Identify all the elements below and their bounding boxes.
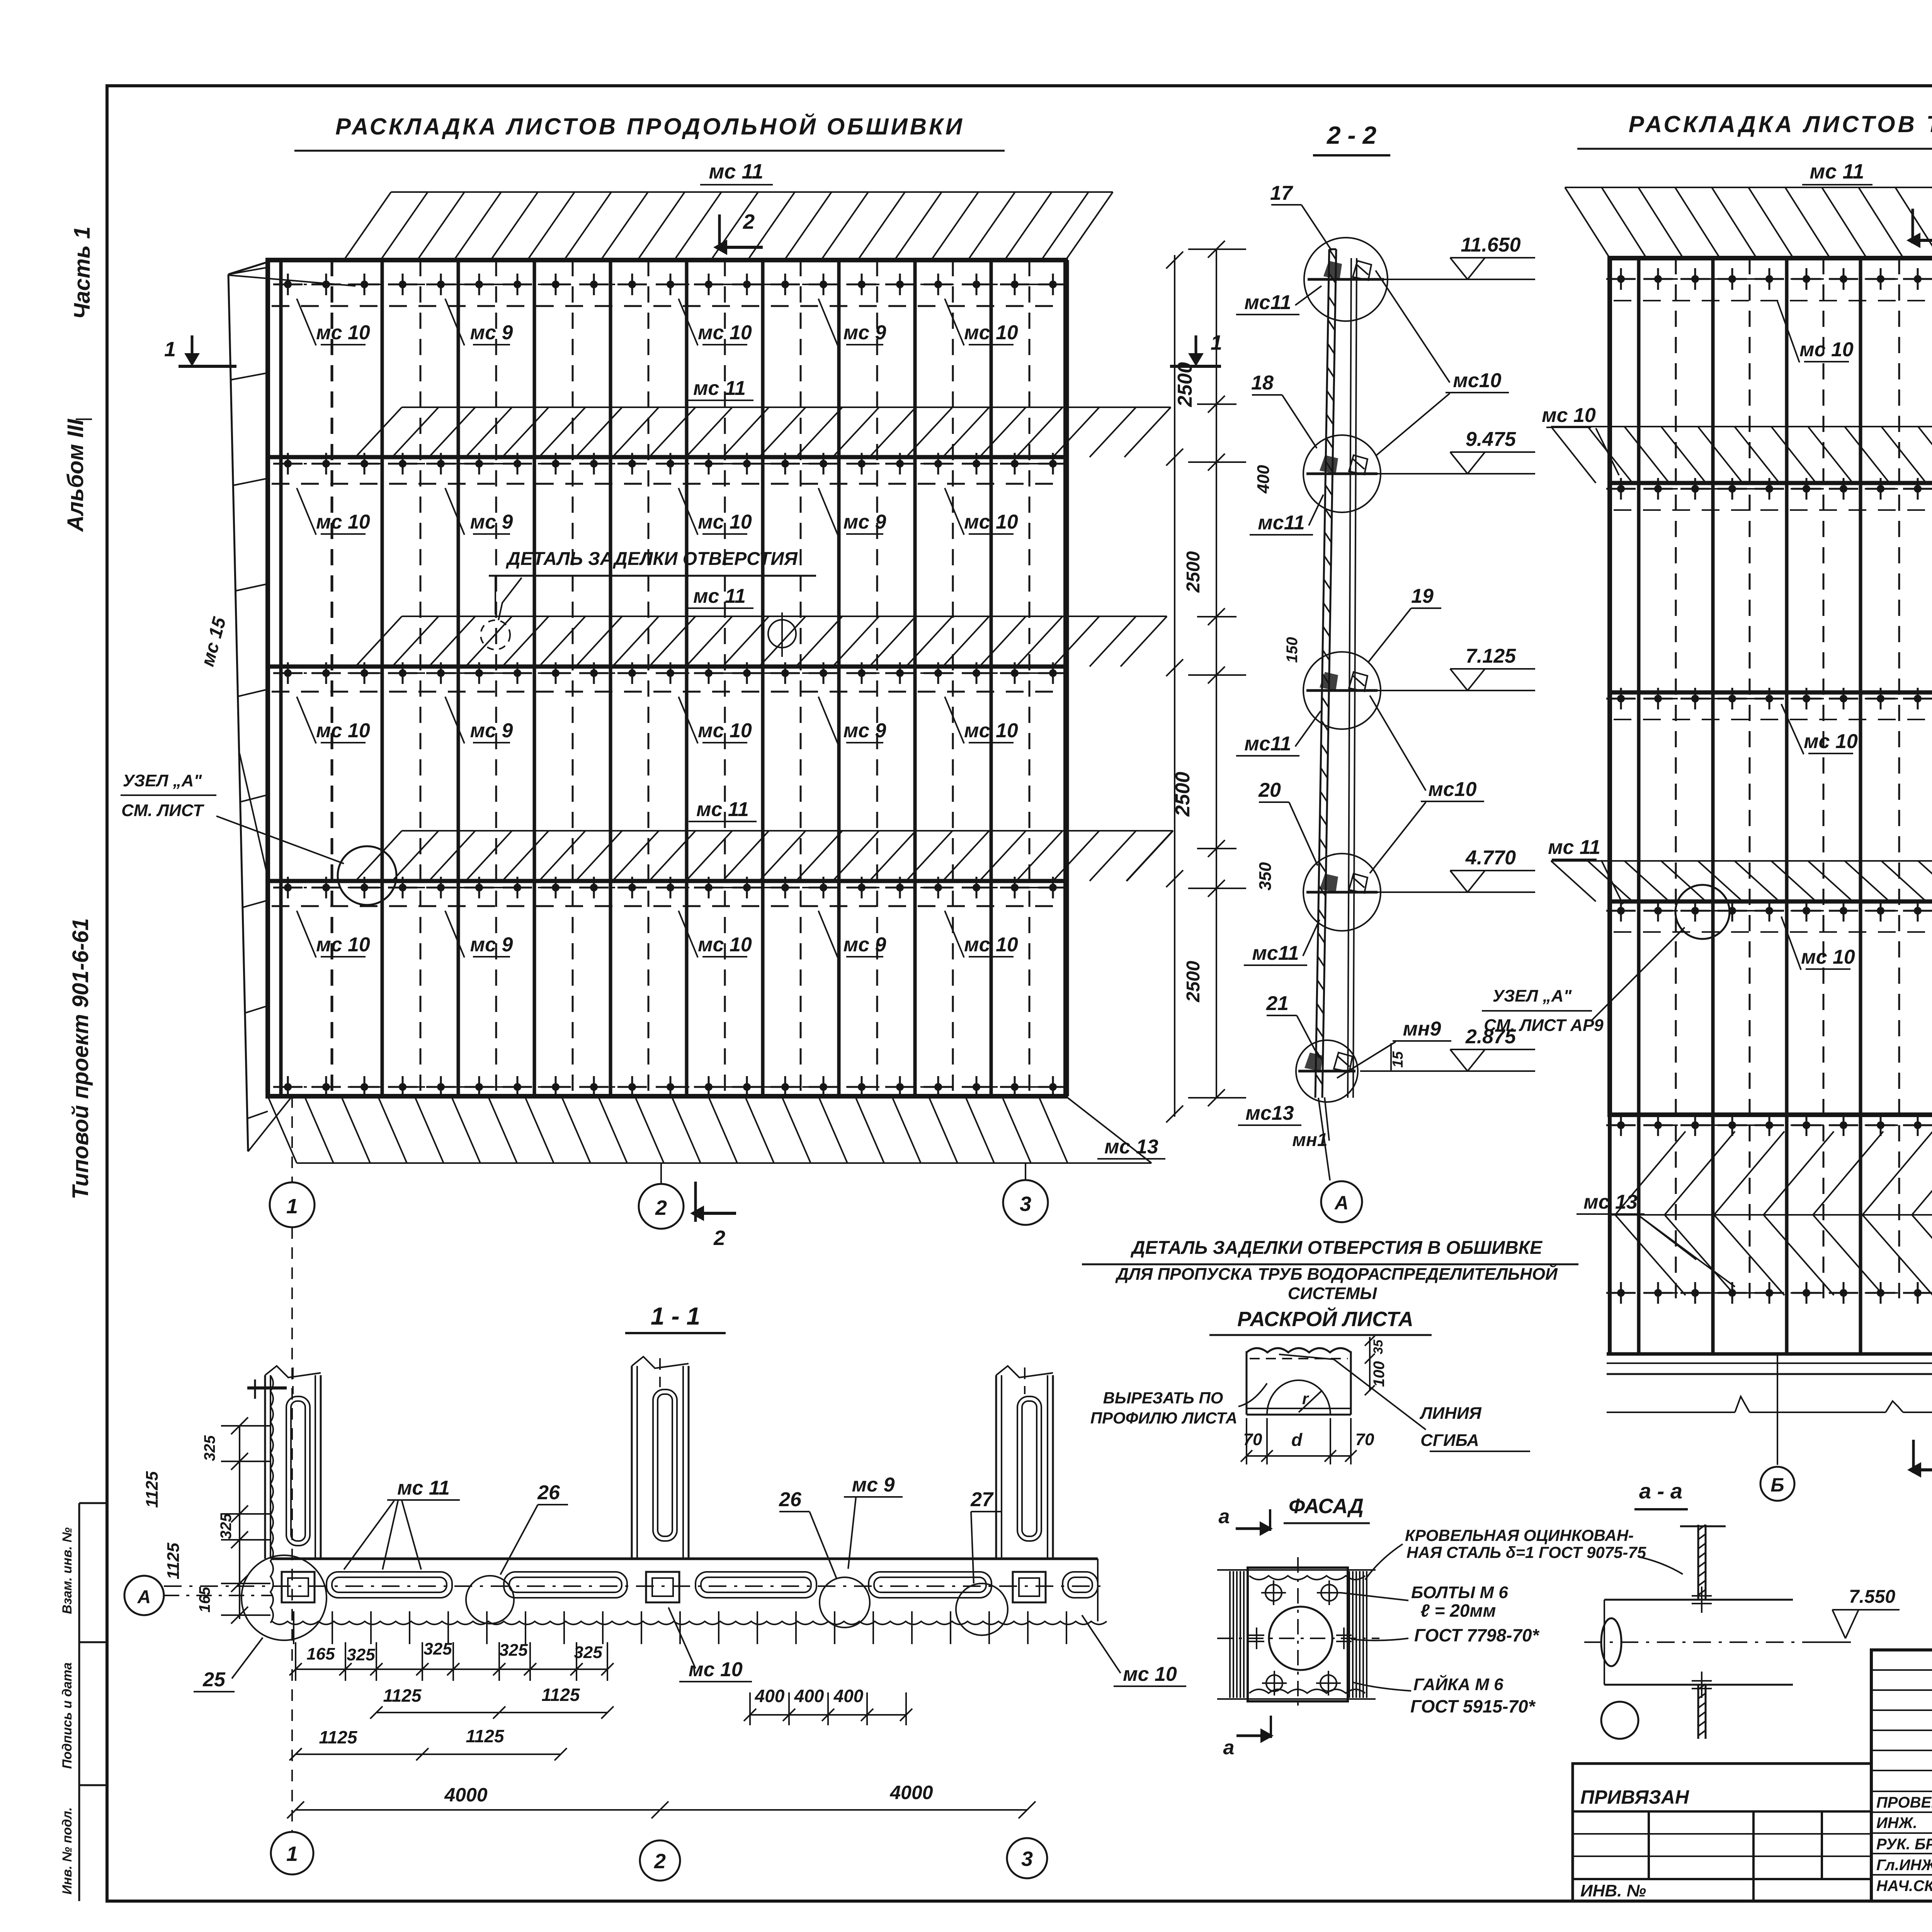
- section mark 1 (right) + dim 2500: [1195, 335, 1197, 361]
- svg-text:26: 26: [779, 1488, 802, 1511]
- left corrugated edge: [270, 1376, 273, 1623]
- section mark 3 bottom: [1912, 1440, 1915, 1473]
- left panel interior hatched band 3: [355, 831, 1173, 881]
- svg-text:ℓ = 20мм: ℓ = 20мм: [1420, 1600, 1496, 1621]
- left panel outline (продольная обшивка): [268, 260, 1066, 1096]
- 1-1 detail circle 25: [241, 1555, 327, 1640]
- section mark 2 top: [718, 214, 721, 250]
- svg-text:мс 11: мс 11: [696, 798, 749, 821]
- svg-text:Б: Б: [1770, 1474, 1784, 1496]
- chevron hatch zone: [1615, 1131, 1932, 1295]
- svg-text:19: 19: [1411, 585, 1434, 607]
- chevron zone mid line: [1610, 1214, 1932, 1216]
- svg-text:мс 9: мс 9: [844, 719, 886, 742]
- svg-text:НАЧ.СКО-1: НАЧ.СКО-1: [1876, 1878, 1932, 1895]
- svg-text:мс 10: мс 10: [964, 511, 1018, 533]
- section mark 1 (left): [191, 335, 194, 361]
- svg-text:2 - 2: 2 - 2: [1327, 121, 1376, 149]
- svg-text:1125: 1125: [542, 1685, 580, 1705]
- svg-text:мс 10: мс 10: [964, 934, 1018, 956]
- svg-text:7.550: 7.550: [1849, 1587, 1895, 1607]
- svg-text:27: 27: [970, 1488, 994, 1511]
- left panel dashed strip edges: [272, 306, 1062, 906]
- svg-text:мс 10: мс 10: [316, 511, 370, 533]
- svg-text:мс 10: мс 10: [698, 511, 752, 533]
- column line to circle Б: [1777, 1354, 1778, 1465]
- svg-text:ГАЙКА М 6: ГАЙКА М 6: [1413, 1674, 1503, 1694]
- svg-text:ПРОВЕР.: ПРОВЕР.: [1876, 1794, 1932, 1811]
- svg-text:мс 11: мс 11: [709, 160, 763, 183]
- svg-text:2: 2: [655, 1196, 667, 1219]
- svg-text:r: r: [1302, 1389, 1310, 1408]
- 1-1 detail circle c: [956, 1583, 1008, 1635]
- svg-text:9.475: 9.475: [1466, 428, 1516, 451]
- dims row B 1125: [370, 1685, 614, 1719]
- circle А left of 1-1: [124, 1576, 164, 1615]
- svg-text:мс 10: мс 10: [316, 719, 370, 742]
- svg-text:2: 2: [713, 1226, 725, 1250]
- svg-text:325: 325: [218, 1513, 235, 1539]
- svg-text:325: 325: [347, 1645, 375, 1664]
- svg-text:1125: 1125: [164, 1543, 183, 1579]
- узел А circle on left panel: [338, 846, 396, 905]
- svg-text:мс 10: мс 10: [698, 719, 752, 742]
- section 2-2 detail circle 18: [1303, 435, 1381, 512]
- svg-text:мс10: мс10: [1428, 778, 1476, 801]
- svg-text:Типовой проект 901-6-61: Типовой проект 901-6-61: [68, 918, 93, 1199]
- svg-text:1 - 1: 1 - 1: [651, 1302, 700, 1330]
- svg-text:РАСКЛАДКА ЛИСТОВ ТОРЦОВОЙ: РАСКЛАДКА ЛИСТОВ ТОРЦОВОЙ ОБШИВКИ: [1629, 111, 1932, 137]
- svg-text:400: 400: [755, 1686, 785, 1706]
- left panel top hatched band мс11: [344, 192, 1113, 260]
- svg-text:мс 10: мс 10: [316, 934, 370, 956]
- svg-text:1: 1: [286, 1842, 298, 1866]
- 1-1 left dimension chain: [143, 1417, 270, 1624]
- svg-text:ДЛЯ ПРОПУСКА ТРУБ ВОДОРАСПР: ДЛЯ ПРОПУСКА ТРУБ ВОДОРАСПРЕДЕЛИТЕЛЬНОЙ: [1115, 1264, 1558, 1284]
- svg-text:мс 9: мс 9: [470, 934, 513, 956]
- svg-text:325: 325: [201, 1435, 218, 1461]
- svg-text:1125: 1125: [319, 1727, 358, 1747]
- svg-text:4000: 4000: [444, 1784, 487, 1806]
- svg-text:4000: 4000: [889, 1782, 933, 1803]
- svg-text:1125: 1125: [466, 1726, 505, 1746]
- svg-text:мс 9: мс 9: [852, 1474, 895, 1496]
- svg-text:1: 1: [286, 1195, 298, 1218]
- svg-text:11.650: 11.650: [1461, 234, 1520, 256]
- grid circle 3 under left panel: [1025, 1163, 1026, 1180]
- svg-text:мс 11: мс 11: [1810, 160, 1864, 183]
- svg-text:ДЕТАЛЬ ЗАДЕЛКИ ОТВЕРСТИЯ В: ДЕТАЛЬ ЗАДЕЛКИ ОТВЕРСТИЯ В ОБШИВКЕ: [1130, 1238, 1543, 1258]
- svg-text:2500: 2500: [1183, 961, 1204, 1002]
- svg-text:ДЕТАЛЬ ЗАДЕЛКИ ОТВЕРСТИЯ: ДЕТАЛЬ ЗАДЕЛКИ ОТВЕРСТИЯ: [505, 549, 798, 569]
- svg-text:СГИБА: СГИБА: [1420, 1431, 1479, 1450]
- svg-text:мн9: мн9: [1403, 1018, 1441, 1040]
- узел А circle on right panel: [1675, 885, 1730, 939]
- svg-text:150: 150: [1284, 637, 1301, 663]
- opening circle solid: [768, 620, 796, 648]
- svg-text:26: 26: [537, 1481, 560, 1504]
- svg-text:ВЫРЕЗАТЬ ПО: ВЫРЕЗАТЬ ПО: [1103, 1389, 1223, 1407]
- а-а pipe: [1584, 1587, 1816, 1698]
- left outrigger strip: [228, 262, 355, 1151]
- svg-text:2500: 2500: [1172, 772, 1194, 817]
- left panel interior hatched band 2: [355, 616, 1167, 667]
- sheet labels rows мс10 / мс9: [297, 299, 1018, 345]
- svg-text:ПРОФИЛЮ ЛИСТА: ПРОФИЛЮ ЛИСТА: [1090, 1409, 1237, 1427]
- svg-text:Подпись и дата: Подпись и дата: [60, 1662, 75, 1769]
- svg-text:мс 13: мс 13: [1104, 1136, 1158, 1158]
- svg-text:325: 325: [423, 1639, 452, 1658]
- right panel outline (торцовая обшивка): [1610, 258, 1932, 1115]
- svg-text:ГОСТ 7798-70*: ГОСТ 7798-70*: [1414, 1625, 1540, 1645]
- right panel verticals extended to base: [1610, 258, 1932, 1354]
- dims 4000 4000: [287, 1782, 1036, 1818]
- 1-1 channel columns above: [265, 1366, 321, 1559]
- svg-text:РАСКРОЙ ЛИСТА: РАСКРОЙ ЛИСТА: [1237, 1307, 1413, 1331]
- node circle below а-а: [1601, 1702, 1638, 1739]
- svg-text:400: 400: [833, 1686, 864, 1706]
- svg-text:2500: 2500: [1174, 362, 1196, 407]
- left panel horizontal joint lines: [268, 455, 1066, 459]
- right panel interior hatched band 1: [1551, 427, 1932, 483]
- svg-text:мс 10: мс 10: [689, 1658, 743, 1681]
- svg-text:Часть 1: Часть 1: [70, 226, 95, 319]
- svg-text:1: 1: [164, 338, 176, 361]
- svg-text:мс 10: мс 10: [316, 321, 370, 344]
- dims row A (165/325): [289, 1639, 614, 1681]
- svg-text:А: А: [1334, 1192, 1349, 1214]
- svg-text:НАЯ СТАЛЬ δ=1 ГОСТ 9075-75: НАЯ СТАЛЬ δ=1 ГОСТ 9075-75: [1406, 1543, 1646, 1561]
- 1-1 detail circle b: [820, 1577, 870, 1628]
- section 2-2 dimension chain: [1183, 241, 1301, 1106]
- svg-text:мс 9: мс 9: [844, 934, 886, 956]
- section 2-2 level lines and elevation flags: [1360, 234, 1535, 1071]
- svg-text:35: 35: [1371, 1339, 1386, 1354]
- svg-text:325: 325: [499, 1641, 528, 1660]
- svg-text:мс 9: мс 9: [844, 511, 886, 533]
- right panel top hatched band мс11: [1565, 187, 1932, 258]
- svg-text:мс 10: мс 10: [1804, 730, 1858, 753]
- section 2-2 detail circle 19: [1303, 652, 1381, 729]
- svg-text:325: 325: [574, 1643, 602, 1662]
- svg-text:ГОСТ 5915-70*: ГОСТ 5915-70*: [1410, 1696, 1536, 1716]
- svg-text:d: d: [1291, 1430, 1303, 1450]
- circle А below 2-2: [1318, 1098, 1330, 1180]
- svg-text:ФАСАД: ФАСАД: [1289, 1495, 1364, 1518]
- привязан sub-table: [1573, 1764, 1871, 1901]
- right panel horizontal joints: [1610, 481, 1932, 485]
- svg-text:А: А: [137, 1587, 151, 1607]
- svg-text:1125: 1125: [383, 1685, 422, 1706]
- 1-1 bolts below band: [294, 1611, 1066, 1644]
- svg-text:мс 10: мс 10: [1801, 946, 1855, 968]
- section 2-2 sheet strip: [1315, 249, 1357, 1098]
- dims row C 1125: [289, 1726, 567, 1760]
- svg-text:мс11: мс11: [1244, 733, 1291, 755]
- svg-text:БОЛТЫ М 6: БОЛТЫ М 6: [1411, 1583, 1508, 1602]
- фасад bolts: [1217, 1557, 1379, 1712]
- svg-text:2500: 2500: [1183, 551, 1204, 593]
- svg-text:РАСКЛАДКА ЛИСТОВ ПРОДОЛЬНО: РАСКЛАДКА ЛИСТОВ ПРОДОЛЬНОЙ ОБШИВКИ: [335, 113, 964, 139]
- svg-text:3: 3: [1021, 1847, 1033, 1871]
- grid circle Б: [1760, 1467, 1794, 1501]
- svg-text:а: а: [1223, 1736, 1235, 1759]
- svg-text:70: 70: [1243, 1430, 1262, 1449]
- svg-text:4.770: 4.770: [1465, 847, 1516, 869]
- svg-text:2: 2: [743, 210, 755, 233]
- svg-text:мс13: мс13: [1245, 1102, 1294, 1124]
- grid circles 1 2 3 of section 1-1: [291, 1227, 293, 1832]
- svg-text:165: 165: [196, 1587, 213, 1612]
- svg-text:мс 9: мс 9: [470, 321, 513, 344]
- 1-1 detail circle a: [466, 1576, 514, 1624]
- section 2-2 detail circle 17: [1304, 238, 1388, 321]
- svg-text:70: 70: [1355, 1430, 1374, 1449]
- фасад sheet shading: [1217, 1570, 1376, 1699]
- svg-text:мс11: мс11: [1244, 291, 1291, 314]
- right panel marker rows: [1606, 268, 1932, 290]
- svg-text:СИСТЕМЫ: СИСТЕМЫ: [1288, 1284, 1377, 1303]
- svg-text:мс 10: мс 10: [964, 321, 1018, 344]
- svg-text:мс 13: мс 13: [1583, 1191, 1638, 1213]
- section 2-2 detail circle 20: [1303, 854, 1381, 931]
- svg-text:мс 10: мс 10: [1542, 404, 1596, 427]
- svg-text:мс10: мс10: [1453, 369, 1501, 392]
- svg-text:17: 17: [1270, 182, 1293, 204]
- svg-text:мс11: мс11: [1252, 942, 1299, 964]
- фасад central hole: [1269, 1607, 1332, 1670]
- svg-text:21: 21: [1266, 992, 1289, 1015]
- right panel interior hatched band 2: [1551, 861, 1932, 901]
- svg-text:мс 11: мс 11: [693, 585, 746, 607]
- svg-text:1125: 1125: [143, 1471, 162, 1508]
- svg-text:ИНВ. №: ИНВ. №: [1580, 1881, 1646, 1900]
- svg-text:а: а: [1219, 1505, 1230, 1528]
- svg-text:15: 15: [1390, 1051, 1406, 1068]
- svg-text:мс 11: мс 11: [1548, 836, 1600, 859]
- grid circle 2 under left panel: [660, 1163, 662, 1184]
- svg-text:Взам. инв. №: Взам. инв. №: [60, 1527, 75, 1614]
- left panel bottom hatched band мс13: [268, 1096, 1151, 1163]
- svg-text:20: 20: [1258, 779, 1281, 801]
- svg-text:мн1: мн1: [1292, 1130, 1327, 1150]
- svg-text:УЗЕЛ „А": УЗЕЛ „А": [1493, 986, 1572, 1005]
- base line with breaks: [1607, 1396, 1932, 1412]
- svg-text:мс 10: мс 10: [698, 321, 752, 344]
- svg-text:ИНЖ.: ИНЖ.: [1876, 1815, 1917, 1832]
- col1 top anchor tick: [247, 1386, 287, 1389]
- grid circle 1 under left panel: [291, 1096, 293, 1182]
- svg-text:400: 400: [794, 1686, 824, 1706]
- svg-text:мс 11: мс 11: [693, 377, 746, 400]
- svg-text:мс 10: мс 10: [1799, 338, 1854, 361]
- раскрой листа detail: [1247, 1348, 1351, 1415]
- svg-text:УЗЕЛ „А": УЗЕЛ „А": [123, 771, 202, 790]
- opening circle dashed: [481, 620, 510, 650]
- svg-text:3: 3: [1020, 1192, 1031, 1216]
- svg-text:СМ. ЛИСТ: СМ. ЛИСТ: [121, 801, 204, 820]
- svg-text:мс 9: мс 9: [470, 511, 513, 533]
- svg-text:Альбом III: Альбом III: [63, 418, 88, 532]
- svg-text:165: 165: [306, 1645, 335, 1663]
- раскрой dims: [1241, 1336, 1388, 1464]
- right panel dashed strip edges: [1614, 301, 1932, 932]
- svg-text:мс 9: мс 9: [844, 321, 886, 344]
- svg-text:мс 10: мс 10: [698, 934, 752, 956]
- svg-text:ЛИНИЯ: ЛИНИЯ: [1419, 1404, 1481, 1423]
- svg-text:мс 11: мс 11: [397, 1477, 450, 1499]
- svg-text:2.875: 2.875: [1465, 1026, 1516, 1048]
- svg-text:400: 400: [1254, 465, 1273, 494]
- section 2-2 detail circle 21: [1296, 1040, 1358, 1102]
- section mark 3 top: [1912, 209, 1914, 243]
- margin stamp column (Инв№подл / Подпись и дата / Взам.инв.№): [78, 1503, 80, 1901]
- svg-text:ПРИВЯЗАН: ПРИВЯЗАН: [1580, 1786, 1689, 1808]
- 1-1 column plates: [282, 1572, 315, 1602]
- фасад plate: [1248, 1568, 1365, 1701]
- base cornice: [1607, 1352, 1932, 1356]
- svg-text:7.125: 7.125: [1466, 645, 1516, 667]
- left panel vertical sheet seams: [281, 260, 1067, 1096]
- svg-text:2: 2: [654, 1850, 666, 1873]
- svg-text:Гл.ИНЖ.ПР: Гл.ИНЖ.ПР: [1876, 1857, 1932, 1874]
- svg-text:мс 10: мс 10: [1123, 1663, 1177, 1685]
- 1-1 sheet slots: [327, 1572, 452, 1598]
- svg-text:а - а: а - а: [1639, 1479, 1682, 1503]
- section mark 2 bottom: [694, 1182, 697, 1222]
- svg-text:КРОВЕЛЬНАЯ ОЦИНКОВАН-: КРОВЕЛЬНАЯ ОЦИНКОВАН-: [1405, 1526, 1634, 1544]
- svg-text:мс 9: мс 9: [470, 719, 513, 742]
- svg-text:25: 25: [202, 1668, 226, 1691]
- svg-text:РУК. БР.: РУК. БР.: [1876, 1836, 1932, 1853]
- svg-text:Инв. № подл.: Инв. № подл.: [60, 1807, 75, 1895]
- left panel fastening marker rows: [273, 274, 1068, 295]
- svg-text:мс 10: мс 10: [964, 719, 1018, 742]
- svg-text:мс11: мс11: [1258, 512, 1304, 534]
- left panel interior hatched band 1: [355, 407, 1171, 457]
- svg-text:18: 18: [1251, 372, 1274, 394]
- svg-text:350: 350: [1256, 862, 1275, 891]
- signature table: [1871, 1650, 1932, 1901]
- dims 400 400 400: [744, 1686, 912, 1725]
- svg-text:100: 100: [1371, 1361, 1388, 1387]
- 1-1 sheeting band: [164, 1559, 1107, 1624]
